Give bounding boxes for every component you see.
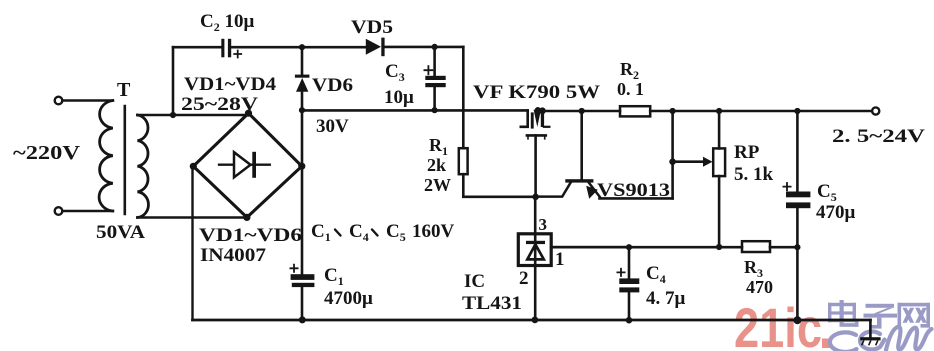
- transistor VS9013 emitter: [589, 183, 600, 197]
- resistor R2: [620, 106, 650, 116]
- wire up to top rail: [172, 47, 175, 115]
- bridge inner diode symbol: [219, 164, 270, 166]
- IC TL431 cathode bar: [526, 241, 545, 244]
- IC TL431 box: [518, 234, 551, 266]
- terminal output: [872, 107, 879, 114]
- node junction gate drive: [532, 194, 539, 201]
- capacitor C5: [796, 111, 799, 320]
- mosfet gate bar: [531, 112, 534, 128]
- svg-text:3: 3: [539, 215, 548, 234]
- potentiometer RP: [713, 148, 725, 176]
- node junction C3 bottom: [432, 107, 438, 113]
- mosfet channel arrow: [534, 110, 541, 127]
- svg-text:470μ: 470μ: [816, 202, 856, 223]
- transistor VS9013 collector: [536, 183, 571, 197]
- IC TL431 triangle: [527, 244, 544, 259]
- wire ground rail: [193, 319, 871, 322]
- node junction C5 ground: [793, 316, 801, 324]
- watermark script com: [830, 327, 932, 351]
- svg-text:C5: C5: [817, 181, 837, 204]
- svg-text:50VA: 50VA: [96, 222, 145, 243]
- svg-text:VD5: VD5: [351, 17, 393, 38]
- node junction C1 ground: [299, 316, 306, 323]
- IC TL431 lead: [534, 197, 537, 320]
- svg-text:VS9013: VS9013: [597, 180, 670, 201]
- diode VD6: [301, 47, 304, 74]
- svg-text:VD1~VD4: VD1~VD4: [184, 74, 277, 95]
- svg-text:4. 7μ: 4. 7μ: [646, 288, 686, 309]
- terminal input bottom: [55, 207, 63, 215]
- wire output rail: [542, 110, 871, 113]
- node junction mosfet drain: [539, 107, 546, 114]
- svg-text:2: 2: [519, 268, 529, 289]
- watermark dot: [822, 339, 832, 349]
- svg-text:2. 5~24V: 2. 5~24V: [832, 126, 925, 147]
- wire top rail mid segment: [231, 46, 366, 49]
- wire secondary top to bridge: [138, 114, 249, 117]
- node junction VS9013 base: [579, 108, 585, 114]
- transistor VS9013 base lead: [580, 111, 583, 179]
- svg-text:470: 470: [746, 277, 773, 297]
- wire emitter to output node: [600, 197, 673, 200]
- transformer T secondary winding: [138, 115, 149, 218]
- resistor R1: [459, 148, 468, 174]
- svg-text:C3: C3: [385, 61, 405, 84]
- wire input bottom: [63, 210, 113, 213]
- wire bridge left vertex down to ground rail: [191, 166, 193, 320]
- svg-text:2W: 2W: [424, 175, 451, 195]
- wire top rail right segment: [385, 46, 464, 49]
- capacitor C3: [433, 47, 436, 110]
- wire secondary bottom to bridge bottom vertex: [138, 216, 247, 219]
- node junction R3 right: [794, 244, 800, 250]
- mosfet source bar: [527, 134, 546, 137]
- svg-text:C1C4C5160V: C1C4C5160V: [311, 221, 455, 244]
- svg-text:T: T: [117, 79, 131, 101]
- IC TL431 ref pin wire: [551, 246, 629, 249]
- wire output node down: [671, 111, 674, 198]
- svg-text:0. 1: 0. 1: [617, 79, 644, 99]
- wire feedback rail: [551, 246, 797, 249]
- capacitor C1: [291, 274, 315, 280]
- resistor R3: [742, 241, 770, 252]
- node junction VD6 top: [299, 44, 305, 50]
- svg-text:10μ: 10μ: [384, 87, 414, 108]
- svg-text:~220V: ~220V: [13, 142, 81, 164]
- svg-text:21ic: 21ic: [734, 296, 822, 351]
- watermark char zi: [864, 304, 898, 329]
- bridge rectifier VD1-VD4 diamond: [193, 113, 301, 217]
- svg-text:C1: C1: [324, 265, 344, 288]
- terminal input top: [55, 97, 63, 105]
- svg-text:C4: C4: [646, 263, 666, 286]
- wire boosted rail down to R1: [462, 47, 465, 148]
- svg-text:5. 1k: 5. 1k: [734, 164, 774, 185]
- svg-text:25~28V: 25~28V: [181, 94, 258, 115]
- node junction C3 top: [432, 44, 438, 50]
- svg-text:VD6: VD6: [312, 75, 353, 96]
- node junction wiper branch: [669, 158, 676, 165]
- svg-text:TL431: TL431: [462, 293, 522, 314]
- capacitor C2: [221, 39, 224, 58]
- capacitor C4: [628, 247, 631, 320]
- svg-text:2k: 2k: [427, 155, 446, 175]
- svg-text:1: 1: [555, 249, 565, 270]
- svg-text:4700μ: 4700μ: [324, 288, 373, 309]
- diode VD5: [366, 39, 381, 55]
- node junction VD6 bottom 30V rail: [299, 107, 305, 113]
- wire RP wiper arrow: [673, 160, 704, 163]
- watermark char dian: [828, 300, 859, 327]
- wire 30V rail: [302, 109, 528, 112]
- svg-text:VF K790 5W: VF K790 5W: [473, 82, 600, 103]
- wire R1 bottom to gate node: [463, 174, 535, 197]
- svg-text:30V: 30V: [316, 116, 349, 137]
- svg-text:IN4007: IN4007: [200, 245, 267, 266]
- transistor VS9013 base bar: [565, 179, 593, 182]
- wire input top: [63, 99, 113, 102]
- node junction C2 branch: [170, 112, 176, 118]
- svg-text:VD1~VD6: VD1~VD6: [199, 225, 302, 246]
- ground symbol: [869, 320, 872, 337]
- svg-text:C2 10μ: C2 10μ: [200, 11, 254, 34]
- wire mosfet source down: [534, 135, 537, 196]
- watermark char wang: [898, 303, 931, 328]
- wire top rail left segment: [173, 46, 221, 49]
- mosfet VF K790 gate hook: [521, 110, 528, 126]
- wire bridge right vertex vertical: [301, 110, 304, 274]
- node junction TL431 anode ground: [532, 317, 539, 324]
- svg-text:IC: IC: [464, 271, 485, 292]
- transformer core: [124, 106, 127, 214]
- mosfet drain bar: [541, 109, 544, 127]
- svg-text:RP: RP: [734, 142, 760, 163]
- transformer T primary winding: [99, 101, 113, 212]
